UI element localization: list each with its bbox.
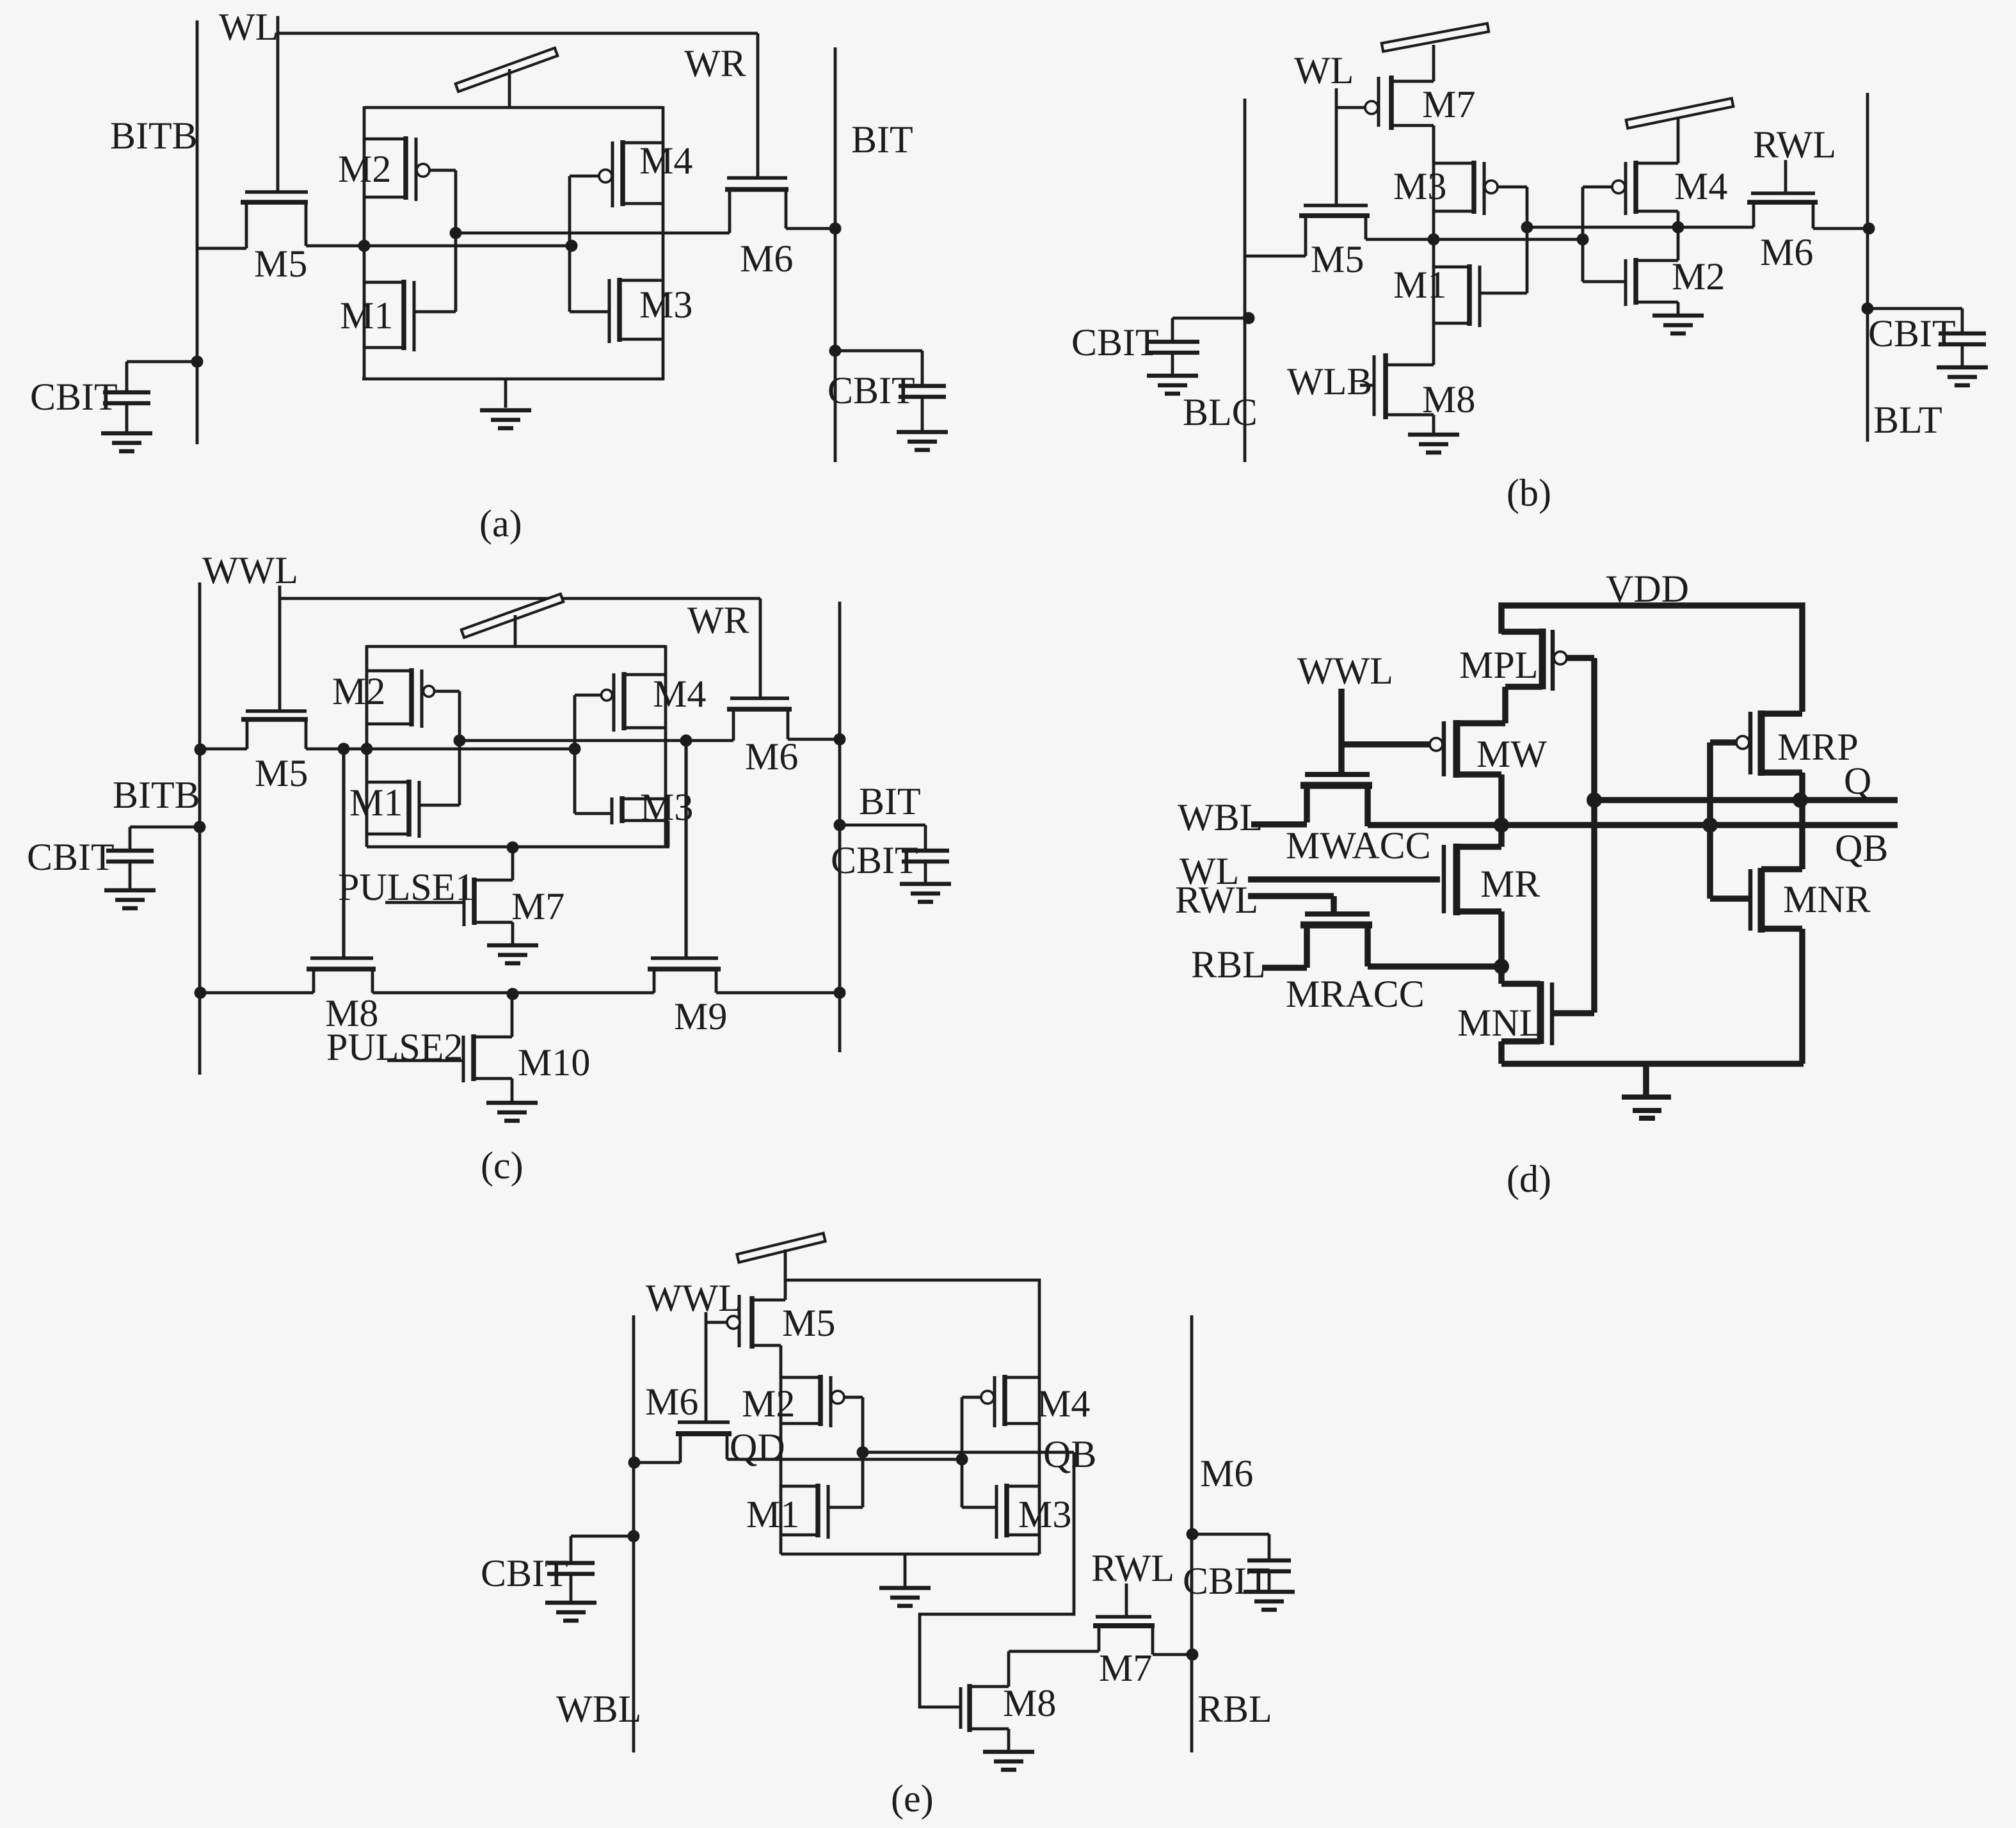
svg-text:CBIT: CBIT <box>831 839 918 881</box>
label M7 (b) <box>1422 83 1475 125</box>
wire bottom rail (d) <box>1501 1061 1804 1067</box>
svg-text:M2: M2 <box>742 1383 795 1425</box>
svg-text:MW: MW <box>1476 733 1547 775</box>
svg-text:BLT: BLT <box>1873 399 1942 441</box>
junction dot right-inverter drains (b) <box>1672 221 1684 234</box>
svg-text:M1: M1 <box>349 782 403 824</box>
label RWL (b) <box>1753 124 1836 166</box>
label MPL (d) <box>1459 644 1538 686</box>
label RBL (d) <box>1191 943 1266 986</box>
label M1 (e) <box>746 1493 799 1535</box>
wire top rail (a) <box>364 106 663 109</box>
svg-text:M5: M5 <box>782 1302 835 1344</box>
capacitor CBIT left (c) <box>104 821 206 909</box>
svg-text:M3: M3 <box>1393 165 1446 207</box>
svg-text:WR: WR <box>687 599 749 641</box>
label QD (e) <box>730 1426 785 1468</box>
svg-text:M4: M4 <box>653 673 706 715</box>
label WWL (e) <box>646 1277 742 1319</box>
junction dot M8 feed (c) <box>338 743 350 755</box>
label PULSE1 (c) <box>338 866 474 908</box>
svg-text:MWACC: MWACC <box>1286 824 1431 867</box>
panel (a) 6T cell with WL/WR and BIT/BITB capacitors <box>30 6 948 545</box>
wire VDD top rail (d) <box>1501 605 1802 712</box>
label M3 (e) <box>1018 1493 1071 1535</box>
label RWL (d) <box>1175 879 1258 921</box>
wire WWL vertical (d) <box>1338 689 1345 774</box>
label M7 (c) <box>511 885 564 927</box>
wire left branch vertical (b) <box>1432 125 1436 365</box>
svg-text:(e): (e) <box>891 1777 934 1820</box>
wire RWL stem (e) <box>1125 1583 1128 1617</box>
transistor M5 access (a) <box>197 192 308 248</box>
label M3 (b) <box>1393 165 1446 207</box>
label WWL (c) <box>202 549 298 591</box>
node lower rail (c) <box>306 748 575 751</box>
transistor M3 NMOS (a) <box>570 246 663 343</box>
panel (d) 8T NVSRAM cell thick style <box>1175 568 1898 1200</box>
transistor M2 PMOS (e) <box>781 1375 863 1507</box>
transistor M4 PMOS (e) <box>962 1375 1039 1507</box>
svg-text:M5: M5 <box>254 243 307 285</box>
transistor M1 NMOS (b) <box>1434 227 1527 327</box>
label M8 (c) <box>325 992 378 1034</box>
junction dot MPL gate vertical on Q (d) <box>1587 792 1602 808</box>
label CBIT right (e) <box>1183 1560 1270 1602</box>
label WL (b) <box>1294 49 1354 92</box>
svg-text:CBIT: CBIT <box>1868 312 1956 355</box>
wire QD vertical (e) <box>780 1377 783 1554</box>
junction dot M6-BIT (c) <box>834 734 846 746</box>
wire BLC bitline (b) <box>1244 99 1247 462</box>
ground inverter (a) <box>480 379 531 428</box>
node M8-M9 rail (c) <box>372 991 654 995</box>
label MWACC (d) <box>1286 824 1431 867</box>
junction dot MR source MNL drain (d) <box>1494 959 1509 974</box>
label WBL (e) <box>556 1688 641 1730</box>
node Q rail (d) <box>1594 797 1898 803</box>
node QD lower rail (e) <box>727 1458 962 1461</box>
svg-text:WWL: WWL <box>646 1277 742 1319</box>
label (c) <box>481 1144 524 1187</box>
junction dot M6-BLT (b) <box>1863 223 1875 235</box>
wire WL-WR top horizontal (a) <box>278 32 758 35</box>
transistor M5 access (c) <box>200 711 308 749</box>
wire left inverter body vertical (c) <box>365 645 369 847</box>
junction dot M5-BITB (c) <box>195 744 207 756</box>
label BLC (b) <box>1183 391 1258 433</box>
svg-text:BIT: BIT <box>851 118 913 161</box>
wire M8 gate feed vertical (c) <box>342 749 345 958</box>
wire WWL vertical (e) <box>705 1312 708 1422</box>
svg-text:(c): (c) <box>481 1144 524 1187</box>
svg-text:(b): (b) <box>1507 472 1551 514</box>
label MRACC (d) <box>1286 973 1425 1015</box>
label M4 (a) <box>639 140 692 182</box>
wire WL vertical (a) <box>276 16 280 192</box>
antenna symbol (a) <box>456 48 557 108</box>
label M2 (e) <box>742 1383 795 1425</box>
wire bottom rail (e) <box>781 1553 1039 1556</box>
node QB rail (d) <box>1368 822 1898 828</box>
junction dot right gates (e) <box>956 1454 968 1466</box>
svg-text:M8: M8 <box>1422 378 1475 421</box>
ground under M8 (e) <box>983 1752 1034 1770</box>
label M9 (c) <box>674 995 727 1038</box>
capacitor CBIT left (a) <box>101 356 204 452</box>
svg-text:M2: M2 <box>332 670 385 712</box>
transistor M8 access (c) <box>200 958 376 993</box>
svg-text:MR: MR <box>1480 863 1540 905</box>
label WL (d) <box>1180 850 1239 892</box>
wire BLT bitline (b) <box>1866 93 1869 442</box>
transistor M3 NMOS (e) <box>962 1484 1039 1539</box>
junction dot M6-node (c) <box>680 735 692 747</box>
transistor M1 NMOS (a) <box>364 233 456 351</box>
svg-text:M10: M10 <box>518 1041 590 1084</box>
wire left inverter body vertical (a) <box>363 106 366 380</box>
wire top rail (c) <box>367 645 666 648</box>
wire QB vertical (e) <box>1038 1377 1041 1554</box>
svg-text:CBIT: CBIT <box>30 376 118 418</box>
svg-text:WBL: WBL <box>1178 796 1263 838</box>
label M2 (c) <box>332 670 385 712</box>
label WWL (d) <box>1297 650 1393 692</box>
svg-text:CBIT: CBIT <box>828 369 915 412</box>
ground under M8 (b) <box>1408 435 1459 453</box>
svg-text:WWL: WWL <box>1297 650 1393 692</box>
label RBL (e) <box>1197 1688 1272 1730</box>
svg-text:M6: M6 <box>745 735 798 778</box>
label M6 (b) <box>1760 231 1813 273</box>
svg-text:M8: M8 <box>1003 1682 1056 1724</box>
svg-text:MPL: MPL <box>1459 644 1538 686</box>
label M5 (b) <box>1311 238 1364 280</box>
transistor M9 access (c) <box>648 958 840 993</box>
label M3 (a) <box>639 284 692 326</box>
label MRP (d) <box>1777 726 1859 768</box>
transistor M7 NMOS (c) <box>385 847 513 943</box>
ground (d) <box>1622 1064 1671 1118</box>
svg-text:M3: M3 <box>1018 1493 1071 1535</box>
label (d) <box>1507 1158 1551 1200</box>
junction dot left-inverter gates (c) <box>454 735 466 747</box>
label M4 (b) <box>1674 165 1727 207</box>
svg-text:M6: M6 <box>645 1381 698 1423</box>
junction dot right-inverter gates (a) <box>566 240 578 252</box>
capacitor CBIT right (c) <box>834 819 952 902</box>
wire BITB bitline (a) <box>196 20 199 444</box>
label M6 (a) <box>740 237 793 280</box>
node upper rail (a) <box>456 232 730 235</box>
label M6 right (e) <box>1200 1452 1253 1495</box>
label M8 (b) <box>1422 378 1475 421</box>
capacitor CBIT right (a) <box>829 345 948 451</box>
svg-text:WR: WR <box>684 42 746 84</box>
svg-text:RWL: RWL <box>1091 1547 1174 1589</box>
transistor M2 PMOS (c) <box>367 668 460 741</box>
junction dot right inverter output on Q (d) <box>1793 792 1808 808</box>
antenna symbol above M7 (b) <box>1382 24 1489 52</box>
svg-text:M7: M7 <box>1099 1647 1152 1689</box>
wire right inverter body vertical (a) <box>662 106 665 380</box>
junction dot left-inverter gates (a) <box>450 227 462 239</box>
svg-text:QB: QB <box>1043 1433 1096 1475</box>
ground under M7 (c) <box>487 945 538 963</box>
label WBL (d) <box>1178 796 1263 838</box>
transistor MW PMOS (d) <box>1341 720 1505 825</box>
wire RWL stem (b) <box>1784 160 1788 193</box>
label WL (a) <box>219 6 278 48</box>
transistor M8 NMOS (b) <box>1360 353 1434 433</box>
svg-text:BIT: BIT <box>859 780 921 822</box>
svg-text:M1: M1 <box>1393 264 1446 306</box>
junction dot M7-RBL (e) <box>1187 1649 1199 1661</box>
label MNL (d) <box>1457 1002 1542 1044</box>
label (e) <box>891 1777 934 1820</box>
wire WR vertical (c) <box>759 598 762 700</box>
ground inverter (e) <box>879 1554 931 1606</box>
label CBIT right (b) <box>1868 312 1956 355</box>
label M1 (a) <box>340 294 393 337</box>
svg-text:RWL: RWL <box>1175 879 1258 921</box>
transistor M5 access (b) <box>1245 205 1370 256</box>
ground under M2 (b) <box>1652 316 1704 333</box>
svg-text:M1: M1 <box>340 294 393 337</box>
label MR (d) <box>1480 863 1540 905</box>
transistor MWACC access (d) <box>1251 774 1372 826</box>
label CBIT left (c) <box>27 836 115 878</box>
label M5 (a) <box>254 243 307 285</box>
label (b) <box>1507 472 1551 514</box>
label CBIT left (a) <box>30 376 118 418</box>
svg-text:MRACC: MRACC <box>1286 973 1425 1015</box>
wire RWL line (d) <box>1248 896 1334 914</box>
transistor M2 NMOS (b) <box>1583 239 1678 306</box>
node upper rail (c) <box>460 739 733 742</box>
wire right inverter input vertical (d) <box>1707 742 1713 899</box>
label CBIT right (c) <box>831 839 918 881</box>
node upper rail (b) <box>1527 226 1754 229</box>
svg-text:WL: WL <box>1294 49 1354 92</box>
node QB upper rail (e) <box>863 1451 1074 1454</box>
svg-text:M5: M5 <box>255 752 308 794</box>
svg-text:CBIT: CBIT <box>1071 321 1159 364</box>
label BLT (b) <box>1873 399 1942 441</box>
wire QB to M8 gate (e) <box>920 1452 1074 1707</box>
label RWL (e) <box>1091 1547 1174 1589</box>
svg-text:BITB: BITB <box>110 115 198 157</box>
svg-text:(a): (a) <box>479 502 522 545</box>
junction dot right inverter input on QB (d) <box>1702 817 1718 833</box>
antenna symbol above M4 (b) <box>1626 99 1734 129</box>
junction dot M6-BIT (a) <box>829 223 842 235</box>
wire bottom rail (c) <box>367 846 669 849</box>
transistor M6 access (a) <box>725 178 835 233</box>
label (a) <box>479 502 522 545</box>
transistor M6 access (b) <box>1747 193 1868 228</box>
label WLB (b) <box>1287 360 1372 403</box>
svg-text:CBIT: CBIT <box>1183 1560 1270 1602</box>
svg-text:M2: M2 <box>1672 255 1725 298</box>
label M2 (a) <box>338 148 391 190</box>
svg-text:(d): (d) <box>1507 1158 1551 1200</box>
transistor M10 NMOS (c) <box>387 994 512 1101</box>
svg-text:M4: M4 <box>639 140 692 182</box>
transistor M4 PMOS (c) <box>575 672 666 749</box>
junction dot left-inverter output (c) <box>361 743 373 755</box>
junction dot M9-BIT (c) <box>834 987 846 999</box>
svg-text:MNR: MNR <box>1783 878 1871 920</box>
label M7 (e) <box>1099 1647 1152 1689</box>
label M5 (c) <box>255 752 308 794</box>
svg-text:M7: M7 <box>1422 83 1475 125</box>
label M2 (b) <box>1672 255 1725 298</box>
label MNR (d) <box>1783 878 1871 920</box>
transistor M7 PMOS (b) <box>1336 45 1434 163</box>
svg-text:M1: M1 <box>746 1493 799 1535</box>
label M8 (e) <box>1003 1682 1056 1724</box>
transistor M4 PMOS (b) <box>1583 161 1678 239</box>
svg-text:BITB: BITB <box>113 774 200 816</box>
transistor MPL PMOS (d) <box>1501 629 1594 723</box>
wire WWL vertical (c) <box>278 586 282 711</box>
capacitor CBIT left (e) <box>545 1530 640 1621</box>
label M4 (e) <box>1037 1383 1090 1425</box>
label M5 (e) <box>782 1302 835 1344</box>
label QB (e) <box>1043 1433 1096 1475</box>
svg-text:M6: M6 <box>1200 1452 1253 1495</box>
label PULSE2 (c) <box>326 1026 463 1068</box>
label Q (d) <box>1844 760 1871 802</box>
antenna symbol (e) <box>737 1233 826 1280</box>
transistor M4 PMOS (a) <box>570 140 663 246</box>
panel (e) 8T cell with WBL/RBL <box>481 1233 1295 1820</box>
label M3 (c) <box>640 786 693 828</box>
ground under M10 (c) <box>486 1103 538 1121</box>
junction dot left-inverter output (a) <box>358 240 371 252</box>
wire WR vertical (a) <box>756 33 760 177</box>
svg-text:BLC: BLC <box>1183 391 1258 433</box>
svg-text:WBL: WBL <box>556 1688 641 1730</box>
transistor M8 NMOS (e) <box>961 1651 1009 1750</box>
capacitor CBIT right (b) <box>1862 303 1988 386</box>
svg-text:RWL: RWL <box>1753 124 1836 166</box>
label BITB (a) <box>110 115 198 157</box>
svg-text:QB: QB <box>1835 827 1888 869</box>
svg-text:MRP: MRP <box>1777 726 1859 768</box>
junction dot left gates (e) <box>857 1447 869 1459</box>
wire BIT bitline (a) <box>834 47 837 462</box>
wire M4-M2 vertical (b) <box>1677 211 1680 261</box>
svg-text:WLB: WLB <box>1287 360 1372 403</box>
panel (c) 10T cell with PULSE transistors <box>27 549 951 1187</box>
junction dot right-inverter gates (b) <box>1577 234 1589 246</box>
svg-text:QD: QD <box>730 1426 785 1468</box>
wire M4 drain to antenna (b) <box>1677 116 1680 163</box>
svg-text:MNL: MNL <box>1457 1002 1542 1044</box>
svg-text:PULSE2: PULSE2 <box>326 1026 463 1068</box>
wire M9 gate feed vertical (c) <box>684 741 687 958</box>
junction dot MW source on QB (d) <box>1494 817 1509 833</box>
transistor MNL NMOS (d) <box>1501 966 1594 1064</box>
label MW (d) <box>1476 733 1547 775</box>
wire bottom rail (a) <box>362 378 664 381</box>
junction dot source rail to M7 (c) <box>507 842 519 854</box>
svg-text:M9: M9 <box>674 995 727 1038</box>
panel (b) 8T cell with BLC/BLT <box>1071 24 1988 514</box>
wire BITB bitline (c) <box>198 582 202 1075</box>
label BIT (c) <box>859 780 921 822</box>
svg-text:M5: M5 <box>1311 238 1364 280</box>
label WR (a) <box>684 42 746 84</box>
svg-text:M6: M6 <box>1760 231 1813 273</box>
transistor MRACC access (d) <box>1262 914 1501 968</box>
svg-text:M4: M4 <box>1037 1383 1090 1425</box>
label WR (c) <box>687 599 749 641</box>
wire right inverter body vertical (c) <box>664 645 668 847</box>
transistor M2 PMOS (a) <box>364 136 456 233</box>
label M4 (c) <box>653 673 706 715</box>
wire MPL-MNL gate vertical (d) <box>1591 658 1597 1013</box>
transistor MNR NMOS (d) <box>1710 800 1802 1064</box>
transistor M3 PMOS (b) <box>1434 161 1527 227</box>
svg-text:WL: WL <box>219 6 278 48</box>
wire WWL-WR top horizontal (c) <box>280 597 760 600</box>
transistor M7 access (e) <box>1009 1617 1192 1655</box>
svg-text:WWL: WWL <box>202 549 298 591</box>
wire WBL bitline (e) <box>632 1315 636 1752</box>
transistor M5 PMOS (e) <box>706 1295 785 1377</box>
label BITB (c) <box>113 774 200 816</box>
transistor M1 NMOS (e) <box>781 1484 863 1539</box>
wire RBL bitline (e) <box>1190 1315 1194 1752</box>
svg-text:CBIT: CBIT <box>27 836 115 878</box>
junction dot M6-WBL (e) <box>628 1457 641 1469</box>
node lower rail (b) <box>1366 238 1583 241</box>
label M1 (c) <box>349 782 403 824</box>
transistor M6 access (c) <box>727 698 840 741</box>
label VDD (d) <box>1606 568 1689 610</box>
label M1 (b) <box>1393 264 1446 306</box>
node lower rail (a) <box>306 245 572 248</box>
junction dot right-inverter gates (c) <box>569 743 581 755</box>
label CBIT right (a) <box>828 369 915 412</box>
capacitor CBIT left (b) <box>1146 312 1255 394</box>
wire WL vertical (b) <box>1335 88 1338 204</box>
svg-text:M3: M3 <box>639 284 692 326</box>
label CBIT left (b) <box>1071 321 1159 364</box>
junction dot M8-BITB (c) <box>195 987 207 999</box>
svg-text:PULSE1: PULSE1 <box>338 866 474 908</box>
wire top rail (e) <box>785 1280 1039 1377</box>
wire M2 source to ground (b) <box>1677 302 1680 314</box>
capacitor CBIT right (e) <box>1187 1528 1295 1610</box>
label CBIT left (e) <box>481 1552 568 1594</box>
junction dot M10 (c) <box>507 988 519 1000</box>
wire BIT bitline (c) <box>838 602 842 1052</box>
svg-text:RBL: RBL <box>1191 943 1266 986</box>
transistor M1 NMOS (c) <box>367 741 460 838</box>
label M6 (c) <box>745 735 798 778</box>
label M10 (c) <box>518 1041 590 1084</box>
svg-text:M6: M6 <box>740 237 793 280</box>
svg-text:RBL: RBL <box>1197 1688 1272 1730</box>
svg-text:M2: M2 <box>338 148 391 190</box>
label QB (d) <box>1835 827 1888 869</box>
svg-text:M7: M7 <box>511 885 564 927</box>
svg-text:M4: M4 <box>1674 165 1727 207</box>
